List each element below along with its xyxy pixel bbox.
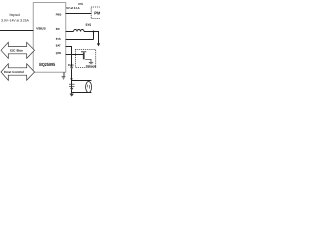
- wire BAT: [66, 47, 72, 94]
- ground triangle battery: [70, 88, 73, 91]
- svg-text:VBUS: VBUS: [36, 27, 46, 31]
- capacitor battery plate 1: [69, 83, 75, 85]
- ground chip GND bars: [62, 76, 66, 78]
- svg-text:SYS: SYS: [56, 37, 61, 41]
- svg-text:PMID: PMID: [56, 13, 62, 17]
- svg-text:I2C Bus: I2C Bus: [10, 48, 23, 52]
- ground bars QON: [89, 62, 93, 64]
- battery plate marks: [87, 85, 89, 88]
- wire QON: [66, 54, 84, 56]
- Host Control arrow: [1, 64, 35, 81]
- svg-text:BAT: BAT: [56, 43, 61, 47]
- wire VBUS input: [0, 30, 34, 32]
- svg-text:PMID: PMID: [94, 11, 100, 16]
- ground chip GND stub: [63, 72, 65, 76]
- wire PMID: [66, 13, 92, 15]
- svg-text:QON: QON: [56, 51, 61, 55]
- dashed box QON optional: [75, 49, 95, 67]
- capacitor battery plate 2: [69, 85, 75, 87]
- wire SYS: [66, 39, 94, 41]
- svg-text:SW: SW: [56, 27, 60, 31]
- svg-text:Host Control: Host Control: [4, 70, 24, 74]
- dashed box PMID connector: [91, 7, 103, 19]
- wire inductor to SYS rail: [84, 31, 99, 33]
- I2C Bus arrow: [1, 42, 35, 58]
- wire switch to ground: [85, 59, 91, 62]
- ground triangle battery negative: [70, 94, 74, 97]
- arrow system output: [97, 43, 100, 46]
- wire battery negative: [72, 92, 92, 94]
- svg-text:Optional: Optional: [86, 64, 97, 68]
- IC U1 BQ25895 body: [33, 3, 66, 73]
- wire SW to inductor: [66, 31, 74, 33]
- svg-text:BQ25895: BQ25895: [39, 62, 55, 67]
- svg-text:PGND: PGND: [68, 63, 74, 67]
- inductor L1: [74, 30, 85, 32]
- pushbutton switch S1: [81, 51, 86, 53]
- wire SYS rail down: [98, 32, 100, 44]
- junction node SYS: [93, 31, 95, 33]
- junction node BAT: [71, 78, 73, 80]
- svg-text:Input: Input: [9, 13, 19, 17]
- wire SYS node down: [93, 32, 95, 40]
- svg-text:5V at 3.1A: 5V at 3.1A: [66, 6, 80, 10]
- ground arrow PGND: [70, 67, 73, 70]
- wire battery positive: [72, 80, 92, 82]
- svg-text:SYS: SYS: [86, 23, 92, 27]
- svg-text:3.9V–14V at 3.25A: 3.9V–14V at 3.25A: [1, 19, 29, 23]
- battery cell B1: [86, 82, 92, 93]
